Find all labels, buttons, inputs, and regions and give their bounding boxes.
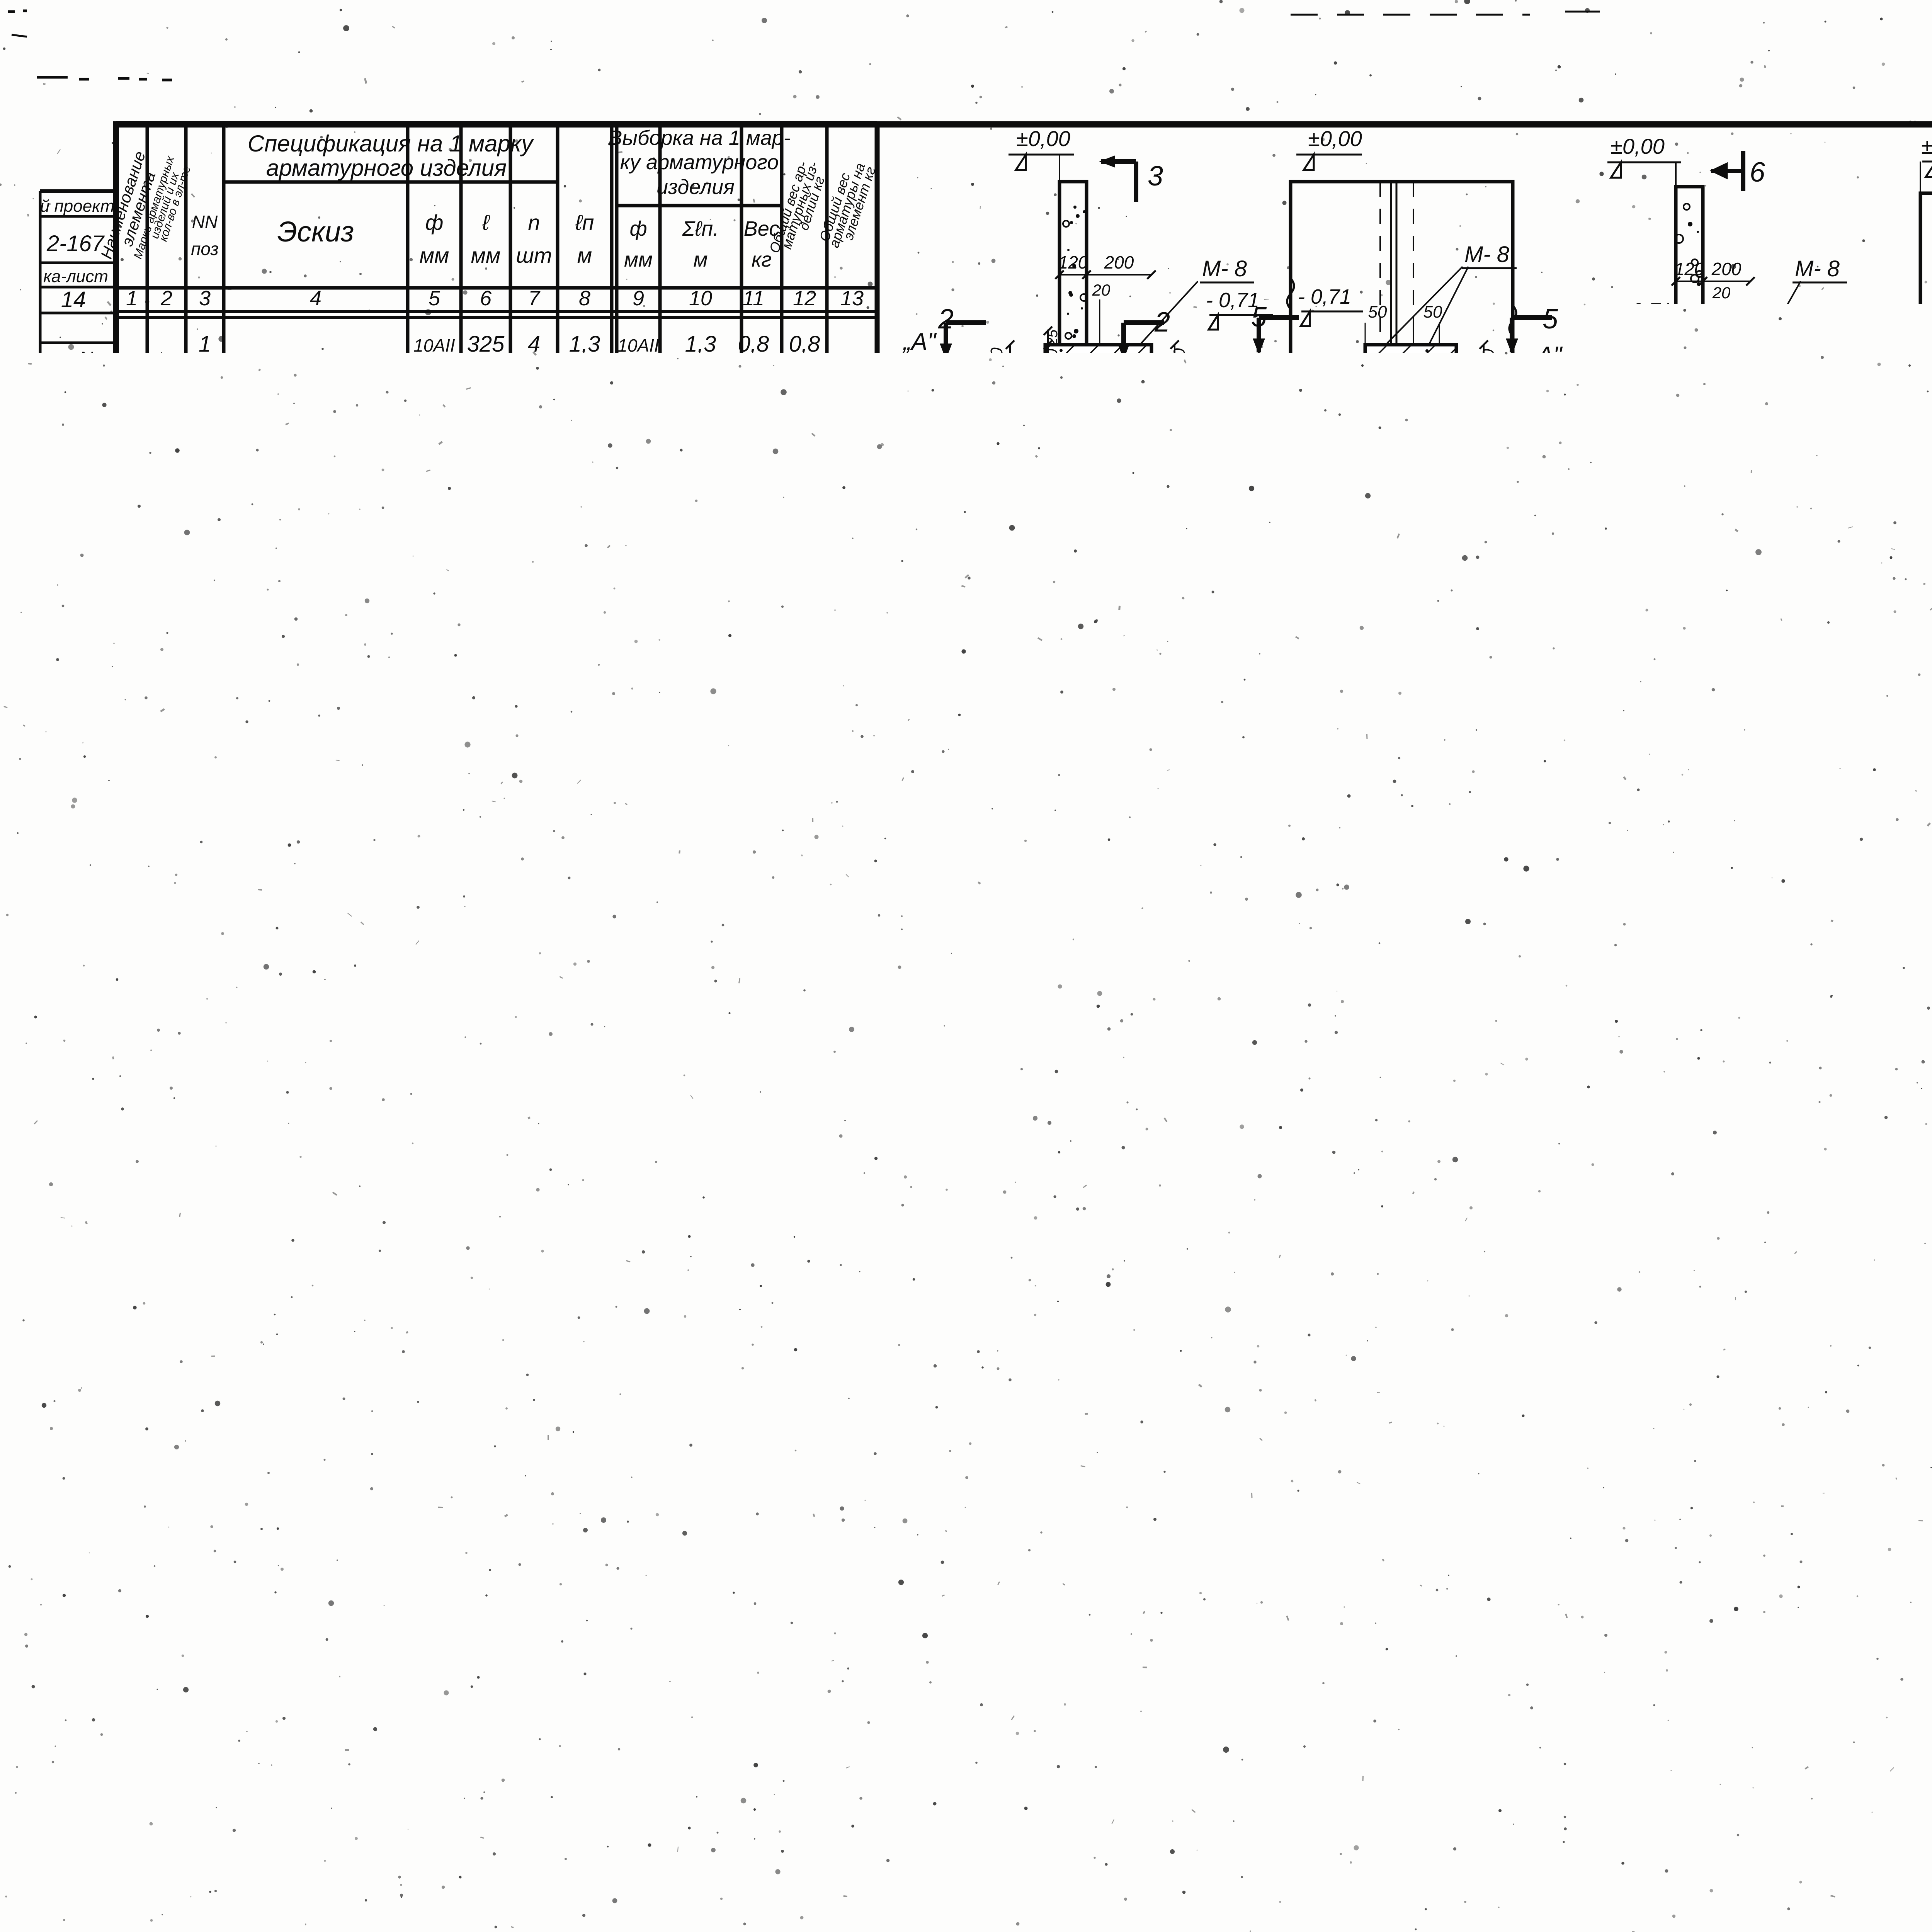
svg-text:20: 20 xyxy=(1353,1394,1370,1410)
svg-text:М- 9: М- 9 xyxy=(1594,402,1639,427)
svg-text:100: 100 xyxy=(369,491,398,510)
svg-text:13: 13 xyxy=(522,1126,547,1151)
svg-text:Гост 5781- 61*: Гост 5781- 61* xyxy=(149,1770,296,1793)
svg-text:Эскиз: Эскиз xyxy=(277,216,354,248)
svg-text:6: 6 xyxy=(1750,451,1766,481)
svg-text:400: 400 xyxy=(1196,662,1214,690)
section 1-1 dims xyxy=(1060,274,1087,276)
detail 2-2 dims xyxy=(977,615,978,644)
svg-text:7: 7 xyxy=(1126,1463,1141,1491)
svg-text:10: 10 xyxy=(192,1126,218,1151)
svg-text:114: 114 xyxy=(1027,660,1042,681)
svg-text:2: 2 xyxy=(198,685,211,710)
section 4-4 wall column xyxy=(1676,187,1703,453)
svg-text:50: 50 xyxy=(358,1078,374,1094)
detail 7-7 labels xyxy=(1280,1183,1315,1219)
svg-text:12: 12 xyxy=(522,386,547,411)
svg-text:8АI: 8АI xyxy=(945,1300,977,1324)
svg-text:профиля класса А II: профиля класса А II xyxy=(139,1747,334,1770)
detail 3-3 reinforcement labels xyxy=(1356,913,1392,948)
top-left corner scan marks xyxy=(37,76,68,79)
svg-text:2. Каркас Кр- 2 устанавливае: 2. Каркас Кр- 2 устанавливается в стыках… xyxy=(1818,1594,1932,1621)
svg-text:25: 25 xyxy=(1644,362,1660,378)
svg-text:М - 8: М - 8 xyxy=(1206,531,1257,556)
svg-text:Бочаров: Бочаров xyxy=(59,1521,75,1578)
svg-text:8АI: 8АI xyxy=(621,780,655,805)
svg-text:1340: 1340 xyxy=(1217,1713,1262,1735)
svg-text:3. Совместно с данным см.: 3. Совместно с данным см. лист Ас- 5 . xyxy=(1818,1653,1932,1679)
svg-text:1: 1 xyxy=(199,332,211,357)
svg-text:100: 100 xyxy=(242,491,271,510)
flat cage Kr-2 section marks 8 xyxy=(1181,1567,1185,1602)
svg-text:Отстойники канализационные: Отстойники канализационные xyxy=(1001,1825,1332,1850)
svg-text:150: 150 xyxy=(313,953,337,969)
svg-text:120: 120 xyxy=(467,880,505,905)
svg-text:2: 2 xyxy=(1257,1312,1272,1341)
svg-text:Алмазов: Алмазов xyxy=(74,992,94,1064)
svg-text:1. Защитный слой бетона -: 1. Защитный слой бетона - 20 мм. xyxy=(1821,1562,1932,1589)
svg-text:Итого: Итого xyxy=(721,1801,792,1826)
svg-text:2-167: 2-167 xyxy=(46,231,105,256)
svg-text:1,3: 1,3 xyxy=(569,1073,600,1099)
svg-text:1,5: 1,5 xyxy=(736,731,771,759)
section 4-4 console slab xyxy=(1671,377,1750,421)
svg-text:—: — xyxy=(615,1835,638,1860)
svg-text:0,2: 0,2 xyxy=(569,880,600,905)
svg-text:1,5: 1,5 xyxy=(787,435,822,463)
svg-text:150: 150 xyxy=(1653,1024,1671,1051)
svg-text:3,0: 3,0 xyxy=(569,482,600,507)
svg-text:90: 90 xyxy=(1440,1322,1457,1340)
svg-text:4: 4 xyxy=(1403,962,1418,990)
svg-text:8: 8 xyxy=(1187,1666,1201,1692)
svg-text:вторичные вертикальные D=6: вторичные вертикальные D=6м xyxy=(1001,1860,1346,1885)
svg-text:0,8: 0,8 xyxy=(569,1126,600,1151)
svg-text:100: 100 xyxy=(1558,645,1575,671)
svg-text:150: 150 xyxy=(1044,349,1061,375)
svg-text:0,7: 0,7 xyxy=(789,386,821,411)
svg-text:100: 100 xyxy=(957,617,974,643)
svg-text:1: 1 xyxy=(1291,1187,1305,1216)
svg-text:Итого:: Итого: xyxy=(630,1071,714,1099)
svg-text:20: 20 xyxy=(1712,284,1731,302)
svg-text:Кр- 1: Кр- 1 xyxy=(1163,884,1215,909)
svg-text:Каркас Кр-2: Каркас Кр-2 xyxy=(150,1056,170,1155)
svg-text:Консоль КН-1: Консоль КН-1 xyxy=(1016,840,1240,879)
svg-text:КН- 2: КН- 2 xyxy=(443,1765,498,1790)
svg-text:200: 200 xyxy=(1133,932,1163,952)
section 3-3 joint lines xyxy=(1390,182,1392,453)
svg-text:мм: мм xyxy=(471,243,501,267)
svg-text:280: 280 xyxy=(1800,371,1819,400)
svg-text:0,7: 0,7 xyxy=(738,685,770,710)
svg-text:5: 5 xyxy=(199,880,211,905)
svg-text:мм: мм xyxy=(624,248,653,271)
svg-text:325: 325 xyxy=(467,633,505,658)
svg-text:Всего: Всего xyxy=(811,1641,873,1667)
svg-text:20: 20 xyxy=(1092,281,1111,299)
svg-text:Нач. отдела: Нач. отдела xyxy=(38,1387,53,1464)
svg-text:арматурного изделия: арматурного изделия xyxy=(266,155,507,181)
svg-text:5: 5 xyxy=(429,287,440,310)
svg-text:860: 860 xyxy=(467,929,505,954)
svg-text:6АI: 6АI xyxy=(417,1126,451,1151)
svg-text:Консоль: Консоль xyxy=(425,1742,511,1767)
svg-text:4 - 4: 4 - 4 xyxy=(1658,471,1726,510)
svg-text:325: 325 xyxy=(467,332,505,357)
svg-text:0,8: 0,8 xyxy=(749,1757,781,1782)
svg-text:0,7: 0,7 xyxy=(787,1071,823,1099)
svg-text:150: 150 xyxy=(1170,348,1188,375)
svg-text:8АI: 8АI xyxy=(541,1801,575,1826)
svg-text:10АII: 10АII xyxy=(617,335,659,355)
svg-text:М -9: М -9 xyxy=(949,1138,992,1162)
svg-text:8АI: 8АI xyxy=(417,929,451,954)
svg-text:Ср.: Ср. xyxy=(471,1108,501,1129)
svg-text:13: 13 xyxy=(840,287,864,310)
svg-text:Горячекатаная: Горячекатаная xyxy=(162,1815,313,1838)
svg-text:М- 8: М- 8 xyxy=(1464,242,1509,267)
svg-text:±0,00: ±0,00 xyxy=(1016,126,1070,151)
svg-text:6АI: 6АI xyxy=(417,1073,451,1099)
svg-text:1: 1 xyxy=(528,1023,540,1048)
svg-text:Кр-1: Кр-1 xyxy=(1662,1129,1706,1153)
left stamp column top rows xyxy=(40,189,116,193)
svg-text:Стык лотка Л-1 со: Стык лотка Л-1 со xyxy=(115,1045,131,1173)
svg-text:130: 130 xyxy=(1471,1317,1490,1344)
svg-text:1,6: 1,6 xyxy=(789,482,820,507)
detail 2-2 left plate M-9 xyxy=(1060,642,1077,663)
svg-text:Консоль КН-1: Консоль КН-1 xyxy=(117,458,139,585)
svg-text:180: 180 xyxy=(307,524,337,544)
svg-text:1— 1: 1— 1 xyxy=(1074,1130,1152,1166)
svg-text:6АI: 6АI xyxy=(417,1023,451,1048)
svg-text:Ср. 55: Ср. 55 xyxy=(293,1123,345,1143)
svg-text:поз: поз xyxy=(191,239,219,259)
flat cage Kr-2 xyxy=(934,1655,1546,1660)
svg-text:3: 3 xyxy=(1146,431,1161,462)
svg-text:114: 114 xyxy=(1607,655,1623,677)
svg-text:3,0: 3,0 xyxy=(738,780,769,805)
detail 3-3 reinforcement cage xyxy=(1481,1012,1636,1063)
svg-text:14: 14 xyxy=(61,287,86,312)
svg-text:в пластину М -9, швы зачисти: в пластину М -9, швы зачистить xyxy=(1530,1288,1910,1315)
detail 1-1 reinforcement console outline xyxy=(1104,1005,1194,1073)
svg-text:6: 6 xyxy=(480,287,492,310)
svg-text:0,7: 0,7 xyxy=(611,1906,643,1931)
svg-text:кг: кг xyxy=(752,248,772,271)
detail 7-7 cage xyxy=(1369,1311,1417,1350)
svg-text:1,3: 1,3 xyxy=(569,633,600,658)
svg-text:55: 55 xyxy=(973,1002,990,1019)
svg-text:3: 3 xyxy=(199,482,211,507)
svg-text:0,7: 0,7 xyxy=(738,386,770,411)
svg-text:2: 2 xyxy=(1176,1189,1191,1217)
svg-text:75: 75 xyxy=(1121,1392,1139,1411)
svg-text:Инженер: Инженер xyxy=(52,1132,72,1206)
svg-text:8АI: 8АI xyxy=(1406,908,1439,932)
svg-text:1: 1 xyxy=(126,287,138,310)
flat cage Kr-2 detail 8-8 xyxy=(1564,1614,1601,1653)
spatial cage Kr-1 dims xyxy=(1026,1412,1086,1413)
svg-text:4,5: 4,5 xyxy=(838,826,874,855)
svg-text:5: 5 xyxy=(1251,302,1267,333)
svg-text:±0,00: ±0,00 xyxy=(1921,134,1932,158)
svg-text:R= 2975: R= 2975 xyxy=(276,1097,338,1115)
svg-text:8АI: 8АI xyxy=(1258,925,1290,949)
svg-text:Гл.констр.отд.: Гл.констр.отд. xyxy=(82,1381,95,1471)
svg-text:8: 8 xyxy=(199,1023,211,1048)
svg-text:8АI: 8АI xyxy=(417,834,451,859)
svg-text:2: 2 xyxy=(527,880,540,905)
svg-text:350: 350 xyxy=(309,471,339,492)
svg-text:Гост 5781- 61*: Гост 5781- 61* xyxy=(162,1895,309,1918)
svg-text:0,7: 0,7 xyxy=(789,685,821,710)
svg-text:50: 50 xyxy=(1423,303,1442,321)
svg-text:ф: ф xyxy=(425,210,444,235)
svg-text:М - 9: М - 9 xyxy=(1001,580,1052,605)
svg-text:8АI: 8АI xyxy=(417,386,451,411)
svg-text:154: 154 xyxy=(1042,1392,1070,1411)
svg-text:55: 55 xyxy=(973,1060,990,1076)
svg-text:См. выше: См. выше xyxy=(258,632,368,658)
svg-text:(1шт): (1шт) xyxy=(163,374,182,423)
svg-text:100: 100 xyxy=(957,645,974,671)
svg-text:Итого:: Итого: xyxy=(630,528,714,556)
svg-text:2,6: 2,6 xyxy=(569,929,600,954)
svg-text:0,8: 0,8 xyxy=(548,1702,580,1728)
svg-text:ку арматурного: ку арматурного xyxy=(620,151,779,174)
svg-text:200: 200 xyxy=(1104,252,1134,272)
svg-text:3: 3 xyxy=(199,780,211,805)
left stamp lower role rows xyxy=(53,1362,55,1600)
svg-text:3: 3 xyxy=(1314,937,1328,966)
svg-text:1: 1 xyxy=(1272,611,1286,639)
svg-text:—: — xyxy=(615,1873,638,1898)
svg-text:75: 75 xyxy=(1091,1392,1110,1411)
svg-text:й проект: й проект xyxy=(40,197,114,216)
detail 5-5 left plate xyxy=(1646,642,1663,663)
svg-text:324: 324 xyxy=(1081,1478,1109,1497)
svg-text:3,7: 3,7 xyxy=(548,1875,580,1900)
svg-text:50: 50 xyxy=(1162,619,1175,633)
svg-text:Ось стыка: Ось стыка xyxy=(1290,614,1418,642)
svg-text:Гл.инж.пр-та: Гл.инж.пр-та xyxy=(60,1385,75,1467)
svg-text:Любитов: Любитов xyxy=(102,1517,118,1583)
svg-text:4: 4 xyxy=(199,531,211,556)
detail 5-5 wall panel curved xyxy=(1680,526,1737,790)
svg-text:260: 260 xyxy=(309,970,339,990)
svg-text:1,6: 1,6 xyxy=(738,482,769,507)
svg-text:14: 14 xyxy=(1916,1189,1932,1209)
svg-text:1350: 1350 xyxy=(463,1076,508,1098)
svg-text:100: 100 xyxy=(1162,674,1175,695)
svg-text:15: 15 xyxy=(1546,1601,1558,1614)
svg-text:3 - 3: 3 - 3 xyxy=(1369,464,1437,502)
svg-text:0,7: 0,7 xyxy=(835,1116,872,1145)
svg-text:- 0,71: - 0,71 xyxy=(1298,285,1351,308)
detail 7-7 dims xyxy=(1444,1306,1446,1311)
svg-text:4: 4 xyxy=(199,834,211,859)
spatial cage Kr-1 section mark 7 xyxy=(1111,1238,1115,1273)
svg-text:гладкая класса АI: гладкая класса АI xyxy=(141,1867,316,1890)
svg-text:90: 90 xyxy=(1201,1322,1218,1340)
svg-text:50: 50 xyxy=(1574,1583,1590,1599)
svg-text:8: 8 xyxy=(1369,1556,1383,1584)
section 1-1 wall column xyxy=(1060,182,1087,454)
svg-text:Спецификация на 1 марку: Спецификация на 1 марку xyxy=(248,131,534,156)
svg-text:150: 150 xyxy=(1774,386,1791,412)
svg-text:120: 120 xyxy=(1058,252,1088,272)
svg-text:Рук. бригады: Рук. бригады xyxy=(103,1385,117,1467)
svg-text:„А": „А" xyxy=(1528,342,1563,369)
svg-text:Каптелин: Каптелин xyxy=(37,1515,53,1584)
svg-text:0,7: 0,7 xyxy=(736,1071,772,1099)
svg-text:150: 150 xyxy=(1915,383,1932,410)
svg-text:0,7: 0,7 xyxy=(789,1023,821,1048)
svg-text:50: 50 xyxy=(1784,658,1798,672)
svg-text:9: 9 xyxy=(633,287,644,310)
svg-text:3 - 3: 3 - 3 xyxy=(1529,1130,1594,1166)
svg-text:5: 5 xyxy=(1543,304,1558,335)
detail 1-1 reinforcement cage xyxy=(1053,1015,1188,1020)
svg-text:20: 20 xyxy=(1202,1345,1218,1361)
svg-text:г. Москва: г. Москва xyxy=(81,1628,103,1718)
svg-text:3,1: 3,1 xyxy=(837,447,872,476)
section 3-3 bottom dims xyxy=(1365,410,1411,411)
svg-text:8: 8 xyxy=(1187,1579,1201,1605)
svg-text:КН - 1: КН - 1 xyxy=(440,1709,502,1734)
section 1-1 section marks 2 xyxy=(946,320,986,325)
svg-text:См. выше: См. выше xyxy=(260,842,370,869)
detail 3-3 reinforcement joint lines xyxy=(1498,901,1500,1116)
svg-text:4: 4 xyxy=(310,287,321,310)
detail 2-2 console plate xyxy=(1127,615,1179,737)
svg-text:К о н с о л ь КН- 1 и: К о н с о л ь КН- 1 и к о н с о л ь КН- … xyxy=(1584,1830,1932,1856)
svg-text:—: — xyxy=(552,1905,575,1930)
svg-text:из сборного Железобетона.: из сборного Железобетона. xyxy=(1001,1893,1299,1918)
section 3-3 panel xyxy=(1291,182,1513,453)
svg-text:Консоль: Консоль xyxy=(110,823,132,900)
svg-text:1,2: 1,2 xyxy=(569,834,600,859)
svg-text:130: 130 xyxy=(467,386,505,411)
svg-text:1 - 1: 1 - 1 xyxy=(1073,464,1141,502)
svg-text:12: 12 xyxy=(793,287,816,310)
svg-text:200: 200 xyxy=(1784,674,1798,696)
svg-text:КН- 1: КН- 1 xyxy=(1144,384,1199,409)
svg-text:8АI: 8АI xyxy=(417,482,451,507)
svg-text:8АI: 8АI xyxy=(621,685,655,710)
svg-text:400: 400 xyxy=(1544,935,1573,955)
svg-text:мм: мм xyxy=(369,1813,388,1828)
svg-text:2: 2 xyxy=(1341,1187,1356,1216)
svg-text:1,3: 1,3 xyxy=(569,1023,600,1048)
svg-text:стержни: стержни xyxy=(161,851,181,927)
svg-text:3: 3 xyxy=(528,929,540,954)
svg-text:150: 150 xyxy=(1215,1025,1233,1053)
svg-text:10АII: 10АII xyxy=(413,637,455,657)
svg-text:0,8: 0,8 xyxy=(738,633,769,658)
svg-text:Армирование. Спецификация: Армирование. Спецификация арматуры. xyxy=(1567,1868,1932,1895)
svg-text:ℓп: ℓп xyxy=(575,210,594,235)
svg-text:100: 100 xyxy=(1784,634,1798,655)
svg-text:стеновых панелей: стеновых панелей xyxy=(1245,641,1464,669)
svg-text:9: 9 xyxy=(199,1073,211,1099)
svg-text:Пространственный каркас Кр-1: Пространственный каркас Кр-1 xyxy=(937,1506,1446,1543)
detail 3-3 reinforcement panel xyxy=(1307,901,1726,1116)
svg-text:- 0,84: - 0,84 xyxy=(1928,328,1932,351)
svg-text:100: 100 xyxy=(1162,634,1175,655)
detail 1-1 reinforcement column xyxy=(1048,901,1104,1116)
svg-text:Стеновая: Стеновая xyxy=(923,732,1027,756)
svg-text:90: 90 xyxy=(973,1032,990,1048)
svg-text:7- 7: 7- 7 xyxy=(1366,1471,1420,1506)
svg-text:( армирование ): ( армирование ) xyxy=(1440,1170,1640,1200)
svg-text:Кр- 2: Кр- 2 xyxy=(453,1913,491,1932)
specification table sketches xyxy=(261,366,369,371)
svg-text:NN: NN xyxy=(192,212,218,232)
svg-text:260: 260 xyxy=(467,973,505,998)
svg-text:1972: 1972 xyxy=(890,1854,967,1897)
svg-text:20: 20 xyxy=(1145,1393,1163,1410)
svg-text:10: 10 xyxy=(689,287,712,310)
detail 5-5 section marks 4 xyxy=(1528,629,1532,657)
svg-text:кг: кг xyxy=(368,1891,389,1915)
svg-text:1,3: 1,3 xyxy=(569,332,600,357)
svg-text:„А": „А" xyxy=(902,328,937,355)
svg-text:120: 120 xyxy=(1675,259,1704,279)
spatial cage Kr-1 labels xyxy=(940,1188,975,1223)
svg-text:130: 130 xyxy=(1234,1317,1252,1344)
svg-text:мм: мм xyxy=(420,243,449,267)
svg-text:"Л - 1 и стенкой отстойни: "Л - 1 и стенкой отстойника на консоли (… xyxy=(1843,1624,1932,1651)
svg-text:(1шт): (1шт) xyxy=(163,667,182,716)
svg-text:7,7: 7,7 xyxy=(685,780,717,805)
svg-text:Вес: Вес xyxy=(360,1856,397,1881)
svg-text:90: 90 xyxy=(1384,1392,1402,1410)
svg-text:4,1: 4,1 xyxy=(685,482,716,507)
section 4-4 floor line xyxy=(1703,349,1833,350)
svg-text:150: 150 xyxy=(1479,349,1497,376)
svg-text:200: 200 xyxy=(1373,389,1403,409)
svg-text:1000: 1000 xyxy=(463,485,508,507)
svg-text:после установки каркаса Кр-: после установки каркаса Кр-1 xyxy=(1530,1256,1873,1282)
svg-text:10АII: 10АII xyxy=(617,637,659,657)
svg-text:25: 25 xyxy=(1644,420,1660,436)
svg-text:„А": „А" xyxy=(906,995,940,1021)
section 3-3 console slab xyxy=(1365,345,1456,380)
svg-text:мм: мм xyxy=(366,1657,390,1677)
svg-text:Выборка арматуры на 1 элеме: Выборка арматуры на 1 элемент xyxy=(189,1592,709,1628)
section 3-3 section marks 5 xyxy=(1259,315,1299,320)
svg-text:70: 70 xyxy=(939,1676,959,1696)
svg-text:- 0,71: - 0,71 xyxy=(1619,299,1672,322)
svg-text:Вес·: Вес· xyxy=(356,1731,401,1755)
svg-text:6 А I: 6 А I xyxy=(601,1801,647,1826)
svg-text:12: 12 xyxy=(522,685,547,710)
svg-text:Консоль КН- 2 - 4,5: Консоль КН- 2 - 4,5 xyxy=(834,1750,857,1929)
svg-text:20: 20 xyxy=(1416,1394,1432,1410)
svg-text:55: 55 xyxy=(473,1129,499,1155)
svg-text:1,6: 1,6 xyxy=(569,685,600,710)
detail 1-1 reinforcement dims xyxy=(993,1005,995,1017)
svg-text:8АI: 8АI xyxy=(417,880,451,905)
svg-text:6: 6 xyxy=(199,929,211,954)
svg-text:11: 11 xyxy=(743,287,764,310)
svg-text:7: 7 xyxy=(199,973,212,998)
svg-text:0,7: 0,7 xyxy=(738,1023,770,1048)
svg-text:1,1: 1,1 xyxy=(569,531,600,556)
